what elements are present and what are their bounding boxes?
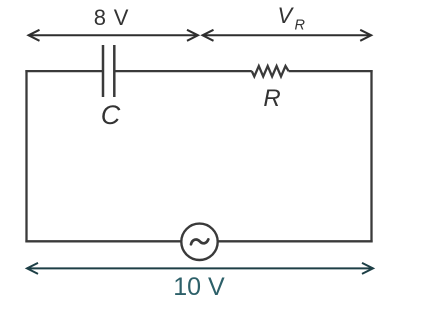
svg-text:R: R xyxy=(295,18,306,34)
svg-text:C: C xyxy=(101,100,121,130)
svg-text:8 V: 8 V xyxy=(94,5,129,30)
svg-text:R: R xyxy=(263,85,280,112)
svg-text:V: V xyxy=(278,3,295,28)
svg-text:10 V: 10 V xyxy=(173,273,225,301)
